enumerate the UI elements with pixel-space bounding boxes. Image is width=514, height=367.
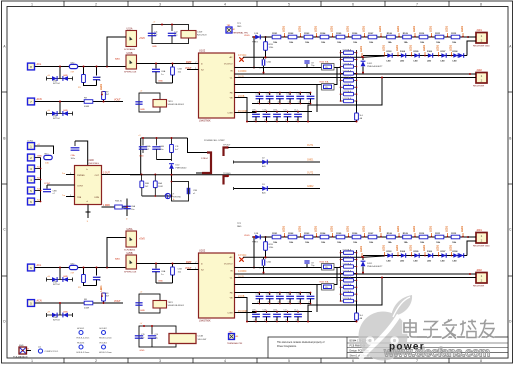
svg-text:TR21: TR21 xyxy=(168,302,174,304)
wire OUT1 xyxy=(228,145,320,148)
zener diode D10 xyxy=(169,164,187,182)
svg-text:R125 N.A.: R125 N.A. xyxy=(320,280,330,283)
svg-text:LED1: LED1 xyxy=(315,25,318,32)
diode D2107 xyxy=(441,251,447,262)
svg-text:+5V0: +5V0 xyxy=(139,37,145,40)
wire input row 1 xyxy=(35,267,126,269)
svg-text:LED1: LED1 xyxy=(347,225,350,232)
svg-text:SCR2A-A: SCR2A-A xyxy=(343,256,352,259)
svg-text:SCR2A-A: SCR2A-A xyxy=(343,262,352,265)
svg-text:RECEIVER: RECEIVER xyxy=(473,286,485,288)
svg-text:BA11: BA11 xyxy=(115,58,121,61)
svg-text:OUT: OUT xyxy=(95,175,100,177)
net flags resistor row xyxy=(283,225,465,237)
svg-text:ACN: ACN xyxy=(37,300,42,303)
sense resistor box R125 xyxy=(320,80,335,90)
svg-text:1 DRD: 1 DRD xyxy=(103,205,110,207)
svg-text:SFH617A-3X001: SFH617A-3X001 xyxy=(168,103,185,106)
bypass cap C26B xyxy=(171,264,183,284)
svg-text:D108: D108 xyxy=(453,251,459,253)
svg-text:TPOUT: TPOUT xyxy=(223,144,231,146)
watermark logo circle xyxy=(359,295,413,361)
resistor R1105 xyxy=(336,33,345,44)
svg-text:2m: 2m xyxy=(62,173,65,175)
cap C10A on bus xyxy=(139,138,151,158)
IC U202 LNK switcher xyxy=(199,249,235,323)
svg-text:GND: GND xyxy=(63,276,68,278)
svg-text:U15A: U15A xyxy=(127,28,133,31)
svg-text:LED1: LED1 xyxy=(423,244,426,251)
cap C10C electrolytic xyxy=(170,138,180,161)
TVS diode pair D15 xyxy=(47,102,73,121)
sense resistor box R224 xyxy=(320,260,335,270)
svg-text:SCR2A-A: SCR2A-A xyxy=(343,249,352,252)
svg-text:D106: D106 xyxy=(427,51,433,53)
resistor R2101 xyxy=(272,233,281,244)
svg-text:U102: U102 xyxy=(199,49,206,53)
resistor R2103 xyxy=(304,233,313,244)
svg-text:C1D: C1D xyxy=(286,293,290,295)
svg-text:HOLE2: HOLE2 xyxy=(100,328,108,330)
decoupling cap C21H xyxy=(273,310,281,322)
port J2 line input xyxy=(28,264,42,271)
resistor R21B xyxy=(264,237,275,258)
svg-text:+H: +H xyxy=(47,75,50,77)
wire bypass gnd xyxy=(156,81,173,84)
svg-text:PMEG4040: PMEG4040 xyxy=(176,167,188,169)
svg-text:R102: R102 xyxy=(288,33,294,35)
U1 bottom stub xyxy=(86,205,91,224)
wire input row 2 xyxy=(35,101,123,103)
wire drain pair upper xyxy=(235,273,477,275)
diode D2103 xyxy=(387,251,393,262)
svg-text:U202: U202 xyxy=(199,249,206,253)
net label VLED xyxy=(244,235,250,237)
svg-text:D5B: D5B xyxy=(53,317,58,319)
IC U202 right pin labels xyxy=(238,254,247,313)
svg-text:LED: LED xyxy=(453,260,458,262)
svg-text:1n: 1n xyxy=(99,280,101,282)
wire IC to sense box upper xyxy=(235,267,341,269)
decoupling cap C11F xyxy=(307,93,315,104)
svg-text:LED: LED xyxy=(387,60,392,62)
cap C10B on bus xyxy=(152,138,164,160)
svg-text:GND: GND xyxy=(152,46,157,48)
U1 left pin feedback xyxy=(62,173,75,175)
pullup resistor R19 xyxy=(100,83,110,101)
svg-text:LED: LED xyxy=(400,60,405,62)
svg-text:J102: J102 xyxy=(476,68,482,72)
mounting hole HOLE3 xyxy=(77,343,90,354)
port CON1 pin 3 xyxy=(28,165,41,172)
bypass cap C26A xyxy=(152,264,166,284)
bias cap C216 xyxy=(148,326,159,347)
ruler ticks sides xyxy=(2,92,513,276)
svg-text:LED1: LED1 xyxy=(423,44,426,51)
svg-text:SCR2A-A: SCR2A-A xyxy=(343,62,352,65)
svg-text:C6A: C6A xyxy=(161,70,166,73)
decoupling cap C21G xyxy=(263,310,271,322)
svg-text:3 OUT: 3 OUT xyxy=(103,173,110,175)
svg-text:SCR2A-A: SCR2A-A xyxy=(343,49,352,52)
decoupling cap C11A xyxy=(256,92,264,103)
svg-text:LNK6766K: LNK6766K xyxy=(199,120,211,123)
junction dots input row 1 xyxy=(59,267,108,269)
svg-text:D103: D103 xyxy=(387,251,393,253)
svg-text:TERMINAL PIN: TERMINAL PIN xyxy=(227,342,243,345)
svg-text:5: 5 xyxy=(288,359,290,363)
watermark url text xyxy=(383,346,490,360)
svg-text:LED1: LED1 xyxy=(363,25,366,32)
U1 right pin DRD with resistor R5A xyxy=(102,205,128,209)
feed diode D21B xyxy=(252,233,260,244)
svg-text:400R: 400R xyxy=(84,308,90,310)
svg-text:C9B: C9B xyxy=(193,190,198,192)
ruler ticks top xyxy=(64,1,449,7)
svg-text:LED1: LED1 xyxy=(413,25,416,32)
svg-text:u7: u7 xyxy=(308,102,310,104)
svg-text:SCR2A-A: SCR2A-A xyxy=(343,56,352,59)
bias regulator C109 xyxy=(181,31,207,39)
svg-text:LED: LED xyxy=(453,60,458,62)
wire sense box left rail xyxy=(316,285,318,313)
svg-text:D105: D105 xyxy=(414,251,420,253)
diode D1103 xyxy=(387,51,393,62)
svg-text:R103: R103 xyxy=(304,233,310,235)
svg-text:U25A: U25A xyxy=(127,228,133,231)
svg-text:Power Integrations.: Power Integrations. xyxy=(277,345,297,348)
svg-text:LNK6766K: LNK6766K xyxy=(199,320,211,323)
pullup resistor R29 xyxy=(100,285,110,303)
mounting hole HOLE1 xyxy=(77,328,90,339)
svg-text:OUT2: OUT2 xyxy=(307,173,314,175)
wire cap row2 top bus xyxy=(252,311,312,313)
svg-text:GND: GND xyxy=(158,81,163,83)
svg-text:D7B04: D7B04 xyxy=(201,158,208,160)
svg-text:GND: GND xyxy=(63,75,68,77)
label POWERCELL STRIP xyxy=(204,140,225,142)
cap C9B on loop xyxy=(187,188,197,195)
svg-text:R1B: R1B xyxy=(269,44,274,46)
cap C15A xyxy=(259,58,271,73)
resistor R1108 xyxy=(387,33,396,44)
svg-text:R105: R105 xyxy=(336,233,342,235)
svg-text:PCB-MAGBLIN: PCB-MAGBLIN xyxy=(13,356,28,359)
svg-text:CN2: CN2 xyxy=(70,62,75,64)
bias cap C9A xyxy=(71,141,80,160)
svg-text:C1J: C1J xyxy=(294,110,297,112)
label TP pad xyxy=(237,23,242,28)
net flags diode row xyxy=(383,244,453,256)
svg-text:2W: 2W xyxy=(325,287,328,289)
freewheel diode D101 xyxy=(360,45,383,72)
port CON1 pin 1 xyxy=(28,143,41,150)
svg-text:+H: +H xyxy=(47,276,50,278)
wire diode top to LED row xyxy=(363,256,384,258)
svg-text:B: B xyxy=(3,137,5,141)
svg-text:This document contains intelle: This document contains intellectual prop… xyxy=(277,341,325,344)
svg-text:D1B: D1B xyxy=(254,33,259,35)
wire VB stub xyxy=(235,298,248,322)
wire IC to sense box lower xyxy=(235,268,338,285)
diode D1108 xyxy=(453,51,464,62)
title block xyxy=(268,337,508,358)
U1 right pin OUT wire xyxy=(102,173,141,175)
svg-text:D1B: D1B xyxy=(254,233,259,235)
svg-text:HOLE-5.2mm: HOLE-5.2mm xyxy=(99,337,112,339)
svg-text:LED1: LED1 xyxy=(379,25,382,32)
connector J102 receiver xyxy=(473,68,487,88)
svg-text:LED: LED xyxy=(427,260,432,262)
svg-text:PMEG: PMEG xyxy=(252,42,258,44)
bias regulator C214 xyxy=(169,334,207,344)
decoupling cap C11B xyxy=(266,93,274,104)
svg-text:C1C: C1C xyxy=(276,93,280,95)
wire FB bus xyxy=(235,292,311,294)
svg-text:PAD: PAD xyxy=(237,225,242,228)
svg-text:LED1: LED1 xyxy=(430,25,433,32)
freewheel diode D201 xyxy=(360,245,383,272)
resistor R6B xyxy=(140,175,150,197)
wire CON1 stubs xyxy=(35,158,41,202)
svg-text:D103: D103 xyxy=(387,51,393,53)
svg-text:LED1: LED1 xyxy=(363,225,366,232)
svg-text:R110: R110 xyxy=(419,233,425,235)
ferrite bead CN12 xyxy=(69,62,77,73)
svg-text:CN2: CN2 xyxy=(70,263,75,265)
resistor R2108 xyxy=(387,233,396,244)
svg-text:R124 N.A.: R124 N.A. xyxy=(320,60,330,63)
svg-text:R108: R108 xyxy=(387,233,393,235)
svg-text:3: 3 xyxy=(159,2,161,6)
wire row to connector J01 pin1 xyxy=(468,236,476,238)
svg-text:B: B xyxy=(509,137,511,141)
port J2b neutral input xyxy=(28,300,42,307)
svg-text:R103: R103 xyxy=(304,33,310,35)
mounting pad MH1 xyxy=(13,345,31,359)
svg-text:R101: R101 xyxy=(272,233,278,235)
cap C18 70p xyxy=(304,61,315,68)
resistor R1109 xyxy=(403,33,412,44)
svg-text:3: 3 xyxy=(159,359,161,363)
svg-text:LED1: LED1 xyxy=(461,225,464,232)
svg-text:LED: LED xyxy=(387,260,392,262)
resistor R1106 xyxy=(352,33,361,44)
decoupling cap C21F xyxy=(307,293,315,304)
svg-text:AC: AC xyxy=(229,56,232,59)
net flags diode row xyxy=(383,44,453,56)
svg-text:C109: C109 xyxy=(197,32,203,34)
IC U202 left pin labels xyxy=(185,261,199,270)
snubber resistor R13 xyxy=(78,67,85,90)
decoupling cap C11H xyxy=(273,110,281,122)
test point TPOUT xyxy=(223,144,231,156)
IC U25B opto driver xyxy=(115,252,137,274)
svg-text:LED1: LED1 xyxy=(360,245,363,252)
svg-text:SFH617A-3X001: SFH617A-3X001 xyxy=(168,304,185,307)
wire LED diode row xyxy=(363,55,467,57)
svg-text:u7: u7 xyxy=(257,102,259,104)
svg-text:R112: R112 xyxy=(451,33,457,35)
svg-text:D101: D101 xyxy=(367,63,373,65)
svg-text:R104: R104 xyxy=(320,232,326,235)
connector J202 receiver xyxy=(473,268,487,288)
svg-text:u7: u7 xyxy=(298,302,300,304)
wire IC to sense box lower xyxy=(235,68,338,85)
wire FB bus xyxy=(235,92,311,94)
snubber resistor R23 xyxy=(78,268,85,290)
resistor R2106 xyxy=(352,233,361,244)
svg-text:LED1: LED1 xyxy=(360,45,363,52)
wire LED resistor row xyxy=(252,236,468,238)
svg-text:100n: 100n xyxy=(159,149,163,151)
current sense resistor stack SR12A xyxy=(340,49,358,103)
wire cap row mid bus xyxy=(252,303,310,305)
wire diode row to connector J01 pin2 xyxy=(467,241,476,256)
svg-text:BZT04: BZT04 xyxy=(53,320,60,322)
svg-text:mH: mH xyxy=(71,272,75,274)
svg-text:LED1: LED1 xyxy=(283,25,286,32)
svg-text:u7: u7 xyxy=(298,102,300,104)
svg-text:13 VCC: 13 VCC xyxy=(238,54,247,57)
svg-text:C6A: C6A xyxy=(161,270,166,273)
svg-text:47u: 47u xyxy=(155,338,158,340)
net flags resistor row xyxy=(283,25,465,37)
wire box2 out to IC xyxy=(137,63,199,65)
svg-text:C5A: C5A xyxy=(267,261,272,264)
svg-text:LNK3296G: LNK3296G xyxy=(88,163,99,165)
net label VOUT row 2 xyxy=(114,99,121,102)
bias cap C11 xyxy=(148,32,159,37)
opto input cap C29 xyxy=(135,303,142,305)
wire snubber bottom xyxy=(84,83,97,86)
svg-text:47u: 47u xyxy=(174,35,177,37)
svg-text:2W: 2W xyxy=(325,87,328,89)
svg-text:u7: u7 xyxy=(267,302,269,304)
wire LED diode row xyxy=(363,255,467,257)
svg-text:8: 8 xyxy=(480,2,482,6)
svg-text:VOUT: VOUT xyxy=(114,99,121,102)
svg-text:2W: 2W xyxy=(325,67,328,69)
svg-text:GND: GND xyxy=(158,281,163,283)
svg-text:AC: AC xyxy=(229,256,232,259)
svg-text:GND: GND xyxy=(63,312,68,314)
decoupling cap C11D xyxy=(286,93,294,104)
svg-text:COM: COM xyxy=(227,313,232,315)
svg-text:SCR2A-A: SCR2A-A xyxy=(343,297,352,300)
svg-text:PMEG4040EPT: PMEG4040EPT xyxy=(367,66,383,68)
decoupling cap C11F xyxy=(252,110,260,122)
svg-text:HOLE1: HOLE1 xyxy=(77,328,85,330)
svg-text:GND: GND xyxy=(140,350,145,352)
resistor R1112 xyxy=(451,33,460,44)
svg-text:LED: LED xyxy=(441,60,446,62)
svg-text:U15B: U15B xyxy=(127,52,133,55)
svg-text:HOLE3: HOLE3 xyxy=(77,343,85,345)
wire cap row mid bus xyxy=(252,103,310,105)
svg-text:power: power xyxy=(389,342,425,353)
cap C25A xyxy=(259,258,271,273)
resistor R2109 xyxy=(403,233,412,244)
wire drain pair lower xyxy=(235,77,477,79)
port J1 line input xyxy=(28,63,42,70)
component Q1 ring xyxy=(38,347,59,353)
svg-text:14 DRC: 14 DRC xyxy=(238,70,247,73)
wire stack bottom return xyxy=(356,101,358,113)
svg-text:LED1: LED1 xyxy=(413,225,416,232)
svg-text:LED1: LED1 xyxy=(331,225,334,232)
svg-text:5: 5 xyxy=(288,2,290,6)
svg-text:RECEIVER GND: RECEIVER GND xyxy=(473,46,490,48)
svg-text:ACN: ACN xyxy=(37,98,42,101)
wire VB stub xyxy=(235,98,248,122)
optocoupler U23 body xyxy=(153,301,185,309)
port CON1 pin 2 xyxy=(28,154,43,161)
svg-text:R108: R108 xyxy=(387,33,393,35)
svg-text:u7: u7 xyxy=(288,102,290,104)
svg-text:LED1: LED1 xyxy=(410,44,413,51)
diode D1106 xyxy=(427,51,433,62)
label TP pad xyxy=(237,223,242,228)
svg-text:R104: R104 xyxy=(320,32,326,35)
svg-text:LED1: LED1 xyxy=(383,244,386,251)
svg-text:POWERCELL STRIP: POWERCELL STRIP xyxy=(204,140,225,142)
svg-text:BA11: BA11 xyxy=(115,258,121,261)
svg-text:16 SL: 16 SL xyxy=(238,76,245,79)
svg-text:LED1: LED1 xyxy=(100,285,103,292)
U1 left pin TRB xyxy=(62,195,75,197)
wire GND1 with diode D2 xyxy=(234,160,321,164)
IC U15B opto driver xyxy=(115,52,137,74)
svg-text:R112: R112 xyxy=(451,233,457,235)
wire return bus xyxy=(308,278,382,322)
sense resistor box R225 xyxy=(320,280,335,290)
svg-text:GND2: GND2 xyxy=(307,186,314,188)
decoupling cap C21J xyxy=(294,310,302,322)
wire snubber bottom xyxy=(84,283,97,286)
wire cap bottom bus xyxy=(247,321,357,323)
resistor R1111 xyxy=(435,33,444,44)
power logo text xyxy=(389,342,425,353)
svg-text:R6B: R6B xyxy=(145,183,150,185)
mounting hole HOLE4 xyxy=(99,343,112,354)
diode D2108 xyxy=(453,251,464,262)
wire bus caps bottom xyxy=(157,159,172,161)
wire IC to sense box upper xyxy=(235,67,341,69)
svg-text:C6B: C6B xyxy=(178,269,183,271)
svg-text:R102: R102 xyxy=(288,233,294,235)
terminal pin TB1 xyxy=(226,25,248,35)
svg-text:R125 N.A.: R125 N.A. xyxy=(320,80,330,83)
svg-text:LED1: LED1 xyxy=(397,25,400,32)
wire row to connector J01 pin1 xyxy=(468,36,476,38)
decoupling cap C21F xyxy=(252,310,260,322)
wire box1 to input row xyxy=(107,238,126,268)
mounting hole HOLE2 xyxy=(99,328,112,339)
svg-text:7m: 7m xyxy=(62,195,65,197)
svg-text:u7: u7 xyxy=(288,302,290,304)
decoupling cap C21D xyxy=(286,293,294,304)
svg-text:J202: J202 xyxy=(476,268,482,272)
svg-text:RECEIVER: RECEIVER xyxy=(473,86,485,88)
svg-text:SCR2A-A: SCR2A-A xyxy=(343,283,352,286)
svg-text:VCO/CO: VCO/CO xyxy=(224,264,233,266)
svg-text:ACL: ACL xyxy=(37,264,42,267)
svg-text:C5A: C5A xyxy=(267,61,272,64)
svg-text:CONT: CONT xyxy=(77,186,84,188)
svg-text:4: 4 xyxy=(224,359,226,363)
svg-text:LED: LED xyxy=(400,260,405,262)
